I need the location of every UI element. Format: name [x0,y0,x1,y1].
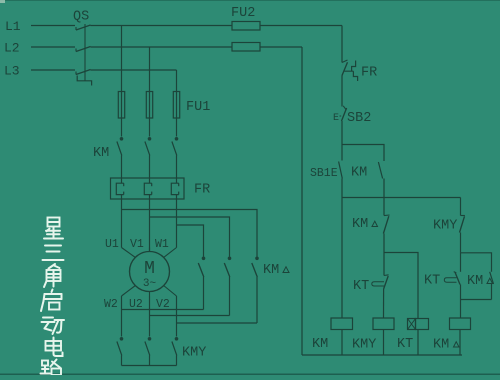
wire phase C to motor [176,199,178,248]
switch QS blade L2 [76,47,91,52]
wire V2 drop [176,296,178,337]
svg-text:L2: L2 [4,41,20,56]
thermal relay FR box [111,178,185,199]
wire KT coil to bus [417,330,419,356]
wire fuse to KM B [149,118,151,137]
svg-text:FR: FR [194,183,210,198]
wire W2 to delta left [122,309,204,311]
wire L2 to control [260,46,302,48]
wire FR to SB2 [341,76,343,107]
fuse FU2-2 [232,43,260,52]
pushbutton SB2 blade [342,108,347,121]
svg-text:SB2: SB2 [347,111,371,126]
svg-text:V1: V1 [130,238,144,251]
svg-text:SB1E: SB1E [310,167,338,180]
motor lead V1 [149,248,151,252]
wire phase A drop [121,26,123,92]
svg-text:L1: L1 [5,19,21,34]
wire phase A to motor [121,199,123,248]
time relay KT coil box [416,319,429,330]
contactor KMY main contact [175,337,179,341]
contactor KM main contact [120,137,124,141]
wire KT coil feed [384,253,418,319]
wire V2 to delta right [177,322,258,324]
wire to KM-delta coil [460,285,462,319]
motor lead U1 [122,248,136,258]
contactor KM latch contact [378,162,382,179]
wire U2 to delta mid [150,315,230,317]
wire L1 after QS [91,25,233,27]
wire parallel rejoin [461,299,492,301]
contactor KM-delta latch contact [490,272,494,284]
wire L2 after QS [91,46,233,48]
wire fuse to KM C [176,118,178,137]
wire fuse to KM A [121,118,123,137]
switch QS handle [77,76,91,86]
motor lead W2 [122,286,136,297]
contactor KMY NC tick [461,215,465,217]
wire control bottom bus [302,354,462,356]
wire W1 delta branch [177,225,204,257]
wire L3 after QS [91,69,177,71]
caption char DONG (move) [43,317,53,319]
caption char DIAN (electric) [53,338,55,352]
contactor KMY main contact [148,337,152,341]
svg-text:FU1: FU1 [186,100,210,115]
wire V1 delta branch [150,217,230,257]
svg-text:KMY: KMY [352,338,376,353]
svg-text:KMY: KMY [433,219,457,234]
edge shading bottom [0,373,500,375]
svg-text:L3: L3 [4,64,20,79]
wire W2 drop [121,296,123,337]
svg-text:FR: FR [361,66,377,81]
svg-text:KT: KT [397,337,413,352]
switch QS blade L3 [76,70,91,75]
coil KM-delta label triangle [454,342,460,347]
contactor KM-delta main contact [255,257,259,261]
contactor KM-delta main contact [202,257,206,261]
wire KMY NC down [460,233,462,253]
fuse FU1 phase B [146,92,152,119]
coil KM [331,318,353,330]
wire SB2 down [341,121,343,145]
svg-text:E: E [333,113,339,124]
pushbutton SB2 tick [343,106,346,110]
wire U2 drop [149,296,151,337]
switch QS linkage [84,24,86,81]
caption char XING (star) [48,218,60,227]
thermal contact FR NC heater [345,61,358,82]
svg-text:W1: W1 [155,238,169,251]
contactor KM main contact [175,137,179,141]
caption char JIAO (angle) [49,264,56,269]
contactor KMY main contact [120,337,124,341]
svg-text:U1: U1 [105,238,119,251]
svg-text:3~: 3~ [143,278,157,290]
svg-text:W2: W2 [104,298,118,311]
wire phase B drop [149,47,151,92]
svg-text:KT: KT [353,279,369,294]
wire L2 in [31,46,75,48]
wire L3 in [31,69,75,71]
caption char SAN (three) [45,245,61,247]
thermal contact FR NC tick [342,60,348,63]
wire KM-delta NC down [383,234,385,253]
wire delta left down [203,277,205,310]
svg-text:KM: KM [263,263,279,278]
motor M circle [130,252,170,292]
contactor KM-delta latch triangle [487,278,493,283]
wire to KMY coil [383,289,385,318]
wire L1 control drop [341,26,343,63]
coil KMY [373,318,394,330]
wire branch to KM latch [342,145,384,162]
svg-text:KM: KM [352,217,368,232]
svg-text:KM: KM [312,337,328,352]
time relay KT delayed NO contact [460,253,462,272]
motor lead V2 [164,286,177,297]
edge shading top [0,0,500,2]
contactor KM-delta main triangle [283,267,289,273]
contactor KM-delta NC tick [384,214,390,217]
svg-text:KM: KM [433,338,449,353]
wire KM-delta coil to bus [459,330,461,356]
contactor KM-delta NC blade [383,216,388,233]
svg-text:FU2: FU2 [231,6,255,21]
svg-text:QS: QS [73,10,89,25]
pushbutton SB1 contact [341,145,343,161]
svg-text:KT: KT [424,274,440,289]
wire KM coil drop [341,198,343,319]
wire U1 delta branch [122,210,258,257]
wire branch3 drop [460,198,462,216]
motor lead U2 [149,292,151,297]
wire control bus [342,197,461,199]
fuse FU2-1 [232,22,260,31]
corner speck top-left [0,0,5,3]
time relay KT coil X-box [408,319,416,330]
wire delta right down [256,277,258,323]
svg-text:KM: KM [351,166,367,181]
wire star point [122,365,177,367]
wire branch2 drop [383,198,385,216]
wire phase B to motor [149,199,151,252]
contactor KMY NC blade [460,216,465,232]
svg-text:M: M [144,259,155,279]
thermal relay FR heater element [116,183,123,194]
wire L1 to control [260,25,342,27]
thermal relay FR heater element [171,183,178,194]
contactor KM-delta NC triangle [372,221,378,226]
svg-text:KMY: KMY [182,346,206,361]
motor lead W1 [164,248,177,258]
coil KM-delta [450,318,471,330]
contactor KM main contact [148,137,152,141]
wire control left bus [301,47,303,355]
wire phase C drop [176,70,178,92]
switch QS blade L1 [76,25,91,30]
wire parallel branch [461,253,492,272]
fuse FU1 phase A [118,92,124,119]
wire KM coil to bus [341,330,343,356]
contactor KM-delta main contact [228,257,232,261]
svg-text:KM: KM [467,274,483,289]
wire delta mid down [229,277,231,316]
wire KMY coil to bus [383,330,385,356]
thermal contact FR NC blade [342,62,348,75]
wire L1 in [31,25,75,27]
fuse FU1 phase C [173,92,179,119]
time relay KT delayed NC contact [383,253,385,276]
svg-text:KM: KM [93,146,109,161]
thermal relay FR heater element [144,183,151,194]
caption char LU (circuit) [42,361,48,366]
caption char QI (start) [52,290,53,293]
